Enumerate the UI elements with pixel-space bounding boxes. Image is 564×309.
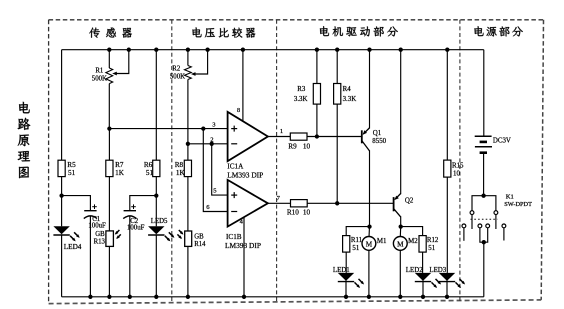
junction switch feed (481, 194, 485, 198)
transistor Q1 8550 (361, 130, 363, 143)
svg-text:M: M (366, 241, 373, 249)
svg-text:1K: 1K (176, 169, 186, 177)
svg-text:IC1B: IC1B (226, 233, 242, 241)
wire R3 bottom (316, 104, 318, 136)
junction LED5/ground (154, 295, 158, 299)
wire LED2 to ground (422, 281, 424, 297)
svg-text:10: 10 (303, 143, 311, 151)
potentiometer R2 500K (185, 66, 192, 80)
op-amp IC1B LM393 (228, 180, 268, 227)
svg-text:R2: R2 (172, 66, 181, 73)
LED LED3 (439, 273, 455, 281)
transistor Q2 8550 (393, 197, 395, 211)
wire rail to R2 (187, 50, 189, 66)
svg-text:K1: K1 (506, 193, 514, 200)
wire to M1 (368, 227, 371, 238)
wire node A to IC1A pin3 (109, 128, 227, 130)
wire IC1A output pin1 (268, 136, 290, 138)
resistor R6 51 (153, 160, 160, 176)
resistor R4 3.3K (334, 84, 341, 105)
svg-text:LED4: LED4 (64, 243, 82, 251)
node A junction R1/R7/pin3 (107, 126, 111, 130)
svg-text:M1: M1 (377, 238, 387, 245)
op-amp IC1A LM393 (228, 112, 268, 161)
wire Q2 collector down (400, 216, 402, 226)
junction R3 on rail (315, 48, 319, 52)
svg-text:51: 51 (352, 245, 359, 252)
svg-text:Q2: Q2 (405, 197, 414, 204)
junction R6 top on rail (154, 48, 158, 52)
svg-text:LED5: LED5 (151, 218, 168, 225)
wire rail to R6 (155, 50, 157, 161)
svg-text:SW-DPDT: SW-DPDT (504, 201, 532, 208)
junction R1 top on rail (107, 48, 111, 52)
wire R1 wiper (116, 50, 129, 74)
junction Q2 emitter on rail (399, 48, 403, 52)
wire IC1B pin4 to ground (243, 217, 245, 296)
wire to M2 (399, 227, 401, 238)
wire node B to IC1A pin2 (188, 143, 228, 145)
wire IC1A pin8 to rail (242, 50, 244, 122)
capacitor C1 100uF (84, 210, 96, 212)
wire R15 to LED3 (446, 177, 448, 273)
junction R2 top on rail (186, 48, 190, 52)
svg-text:500K: 500K (170, 74, 185, 81)
wire M2 to ground (399, 250, 401, 297)
junction LED2/ground (421, 295, 425, 299)
svg-text:M2: M2 (408, 238, 418, 245)
svg-text:LED1: LED1 (333, 267, 350, 274)
wire C1 branch (62, 196, 91, 211)
resistor R12 51 (419, 236, 426, 253)
junction pin8 on rail (241, 48, 245, 52)
junction R13/ground (107, 295, 111, 299)
section title 传感器 (89, 27, 132, 37)
node junction Q1 collector / M1 / R11 (367, 224, 371, 228)
svg-text:100uF: 100uF (88, 223, 106, 230)
node B junction R2/R8/pin2 (186, 142, 190, 146)
node junction R5/LED4/C1 (59, 193, 63, 197)
junction M2/ground (398, 295, 402, 299)
svg-text:51: 51 (428, 245, 435, 252)
junction R15 on rail (445, 48, 449, 52)
resistor R8 1K (184, 160, 191, 176)
svg-text:10: 10 (453, 170, 460, 177)
wire R6 to LED5 (155, 177, 157, 227)
svg-text:10: 10 (303, 209, 311, 217)
svg-text:R12: R12 (427, 237, 439, 244)
wire rail to R1 (108, 50, 110, 68)
svg-text:8: 8 (237, 107, 240, 114)
svg-text:R9: R9 (288, 143, 297, 151)
potentiometer R1 500K (106, 68, 113, 84)
svg-text:R3: R3 (297, 86, 306, 93)
resistor R9 10 (290, 133, 307, 140)
wire C2 to ground rail (129, 216, 131, 296)
wire LED4 to ground rail (61, 234, 63, 296)
wire pin2 net to IC1B pin5 (212, 144, 228, 195)
svg-text:GB: GB (194, 233, 204, 240)
wire R2 wiper (194, 50, 207, 74)
svg-text:R10: R10 (287, 209, 299, 217)
wire node B to R8 (187, 144, 189, 160)
wire LED5 to ground rail (155, 234, 157, 296)
svg-text:LM393 DIP: LM393 DIP (225, 241, 261, 250)
resistor R15 10 (444, 160, 451, 177)
node junction R6/LED5/C2 (154, 193, 158, 197)
junction LED1/ground (344, 295, 348, 299)
svg-text:LED3: LED3 (429, 267, 446, 274)
capacitor C2 100uF (124, 210, 136, 212)
wire R3 to rail (316, 50, 318, 84)
wire R11 to LED1 (345, 252, 347, 273)
wire R1 to node A (108, 84, 110, 129)
svg-text:R1: R1 (95, 68, 103, 75)
node junction Q2 collector / M2 / R12 (399, 224, 403, 228)
motor M2 (393, 237, 407, 251)
switch K1 SW-DPDT (472, 196, 496, 229)
wire R14 to ground rail (187, 246, 189, 296)
LED LED4 (53, 226, 69, 234)
junction Q1 emitter on rail (367, 48, 371, 52)
wire R2 to node B (187, 80, 189, 144)
junction pin4/ground (242, 295, 246, 299)
junction R3/Q1-base net (315, 134, 319, 138)
wire rail corner down to battery (483, 50, 485, 137)
svg-text:1K: 1K (115, 169, 125, 177)
photoresistor R13 GB (106, 231, 114, 247)
wire Q1 collector down (369, 150, 371, 226)
svg-text:R11: R11 (351, 237, 363, 244)
svg-text:R4: R4 (343, 86, 352, 93)
svg-text:500K: 500K (92, 76, 107, 83)
svg-text:M: M (397, 241, 404, 249)
junction wiper R1 on rail (127, 48, 131, 52)
svg-text:1: 1 (280, 128, 283, 135)
wire ground bottom rail (62, 296, 484, 298)
wire R9 to Q1 base (307, 136, 362, 138)
svg-text:8550: 8550 (372, 138, 386, 145)
resistor R5 (58, 160, 65, 176)
wire switch to ground rail (483, 242, 485, 297)
svg-text:LED2: LED2 (406, 267, 423, 274)
wire R7 to R13 (108, 177, 110, 231)
junction LED3/ground (445, 295, 449, 299)
svg-text:3.3K: 3.3K (343, 96, 357, 103)
svg-text:IC1A: IC1A (227, 163, 244, 171)
wire R4 to rail (336, 50, 338, 84)
wire Q2 emitter to rail (400, 50, 402, 194)
junction C1/ground (88, 295, 92, 299)
junction pin3/pin6 tap (201, 126, 205, 130)
section title 电机驱动部分 (320, 26, 398, 36)
resistor R7 1K (106, 160, 113, 176)
svg-text:LM393 DIP: LM393 DIP (227, 170, 263, 179)
wire LED3 to ground (446, 281, 448, 297)
section title 电压比较器 (192, 27, 255, 37)
junction R4 on rail (335, 48, 339, 52)
resistor R3 3.3K (313, 84, 320, 105)
svg-text:51: 51 (146, 169, 154, 177)
section separator comparator/motor (276, 20, 278, 303)
wire to R11 (346, 227, 369, 236)
section separator motor/power (459, 20, 461, 301)
wire LED1 to ground (345, 281, 347, 297)
svg-text:R13: R13 (94, 239, 106, 246)
wire R12 to LED2 (422, 252, 424, 273)
resistor R10 10 (291, 200, 308, 207)
motor M1 (362, 237, 376, 251)
junction M1/ground (367, 295, 371, 299)
wire rail to R15 (446, 50, 448, 160)
svg-text:R15: R15 (452, 162, 464, 169)
page title 电路原理图 (vertical) (18, 102, 31, 178)
svg-text:3.3K: 3.3K (294, 96, 308, 103)
svg-text:GB: GB (95, 231, 105, 238)
LED LED2 (415, 273, 431, 281)
wire node A to R7 (108, 129, 110, 161)
svg-text:DC3V: DC3V (493, 137, 511, 144)
wire M1 to ground (368, 250, 370, 297)
wire C2 branch (130, 196, 157, 211)
resistor R11 51 (343, 236, 350, 253)
wire pin3 net to IC1B pin6 (203, 129, 227, 212)
junction R14/ground (186, 295, 190, 299)
svg-text:R14: R14 (194, 241, 206, 248)
junction C2/ground (128, 295, 132, 299)
wire left column from rail to R5 (61, 50, 63, 161)
LED LED1 (338, 273, 354, 281)
junction wiper R2 on rail (205, 48, 209, 52)
LED LED5 (148, 226, 164, 234)
wire IC1B output pin7 (268, 202, 291, 204)
wire R10 to Q2 base (307, 202, 393, 204)
junction switch common (482, 240, 486, 244)
wire R4 to pin7 net (336, 104, 338, 203)
wire Q1 emitter to rail (369, 50, 371, 129)
svg-text:51: 51 (68, 169, 76, 177)
section title 电源部分 (474, 26, 523, 36)
junction R4/pin7 net (335, 201, 339, 205)
battery DC3V (475, 135, 492, 137)
wire R8 to R14 (187, 177, 189, 231)
junction pin2/pin5 tap (210, 142, 214, 146)
wire battery to switch (483, 153, 485, 196)
section separator sensor/comparator (171, 20, 173, 303)
photoresistor R14 GB (185, 231, 192, 246)
wire C1 to ground rail (89, 216, 91, 296)
svg-text:Q1: Q1 (373, 130, 382, 137)
wire +V top rail (62, 49, 484, 51)
wire R5 to LED4 (61, 177, 63, 227)
wire R13 to ground rail (108, 246, 110, 296)
wire to R12 (401, 227, 423, 236)
